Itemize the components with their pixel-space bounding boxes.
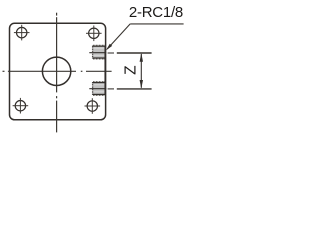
port RC1/8 bottom (threaded) [92,82,105,96]
svg-text:Z: Z [123,65,140,74]
horizontal centerline [3,70,112,72]
mounting hole bottom-left [13,98,29,114]
dimension extension line top [117,52,152,54]
port RC1/8 top centerline [89,52,106,54]
svg-text:2-RC1/8: 2-RC1/8 [129,4,183,21]
port RC1/8 top (threaded) [92,45,105,59]
mounting hole top-right [86,26,102,42]
leader arrowhead [106,44,112,51]
center bore circle [42,57,70,85]
vertical centerline [56,13,58,133]
port RC1/8 bottom centerline [89,88,106,90]
right edge of flange redrawn over ports [104,46,106,95]
leader underline below label [130,23,183,25]
flange body outline [10,23,106,120]
leader line to port [107,24,130,49]
dimension extension line bottom [117,88,152,90]
dimension line Z with arrows [140,53,143,89]
mounting hole top-left [14,25,30,41]
mounting hole bottom-right [85,98,101,114]
